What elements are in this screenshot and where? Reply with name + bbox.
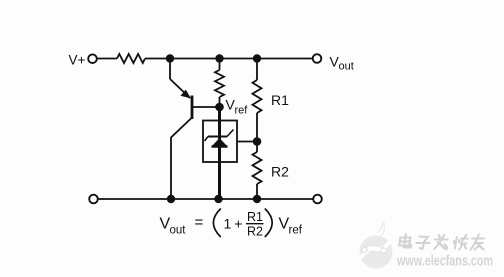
svg-text:out: out [170,225,187,237]
wire top rail to resistor (Vref leg) [219,59,221,71]
svg-text:out: out [339,61,354,73]
reference IC box U1 [203,121,237,163]
wire R1 to node [256,113,258,142]
svg-text:www.elecfans.com: www.elecfans.com [396,254,493,270]
svg-text:ref: ref [289,225,303,237]
wire V+ to resistor [97,58,117,60]
resistor R2 [256,142,258,153]
svg-text:R1: R1 [247,210,263,224]
node bottom dot (collector) [167,195,175,203]
wire heavy: Vref node through reference to bottom rail [218,107,221,199]
resistor (series, horizontal) [117,54,145,63]
svg-text:R2: R2 [247,225,263,239]
node Vref junction dot [215,103,224,112]
svg-text:R2: R2 [271,164,289,180]
node R1/R2 junction dot [253,137,262,146]
wire top rail [145,58,313,60]
terminal V+ open circle [88,54,97,63]
emitter arrow [181,90,192,99]
transistor Q1 (PNP, emitter up) [170,59,193,200]
resistor (Vref leg, vertical) [215,70,224,97]
svg-text:=: = [195,214,204,231]
node: junction dot top-middle [215,54,223,62]
wire bottom rail [98,198,313,200]
base bar [191,96,194,120]
wire resistor to Vref node [219,97,221,107]
zener diode D1 (inside box, cathode up) [205,130,234,147]
node: junction dot top-right (R1 top) [253,54,261,62]
collector wire [171,118,192,138]
formula Vout = (1 + R1/R2) Vref [160,209,303,239]
svg-text:1: 1 [224,216,232,232]
svg-text:R1: R1 [271,92,289,108]
emitter wire [169,59,171,80]
terminal bottom-left open circle [89,195,98,204]
wire box to R1/R2 node [237,141,257,143]
watermark text 电子发烧友 (hand drawn strokes) [399,234,486,250]
wire top rail to R1 [256,59,258,81]
node: junction dot top-left (emitter) [166,54,174,62]
node bottom dot (reference) [214,195,222,203]
svg-text:V+: V+ [69,53,86,68]
resistor R1 [253,80,262,113]
node bottom dot (R2) [253,195,261,203]
svg-text:+: + [234,215,242,231]
terminal bottom-right open circle [313,195,322,204]
watermark logo [360,221,393,269]
wire base to Vref node [193,106,220,108]
terminal Vout open circle [313,54,322,63]
svg-text:ref: ref [235,105,249,117]
